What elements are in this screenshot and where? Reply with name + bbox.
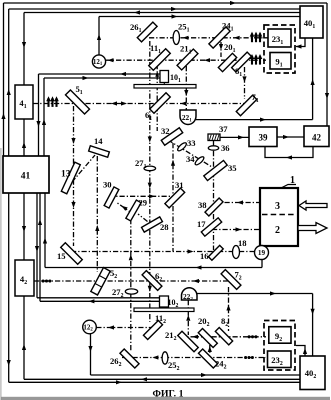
wire loop L2 bottom: left riser to unit 40-2: [8, 193, 10, 382]
unit 4-2: [15, 260, 34, 296]
mirror 26-2: [120, 349, 139, 368]
wire: 39 to 42: [277, 136, 304, 138]
svg-text:18: 18: [238, 238, 247, 248]
svg-text:42: 42: [312, 133, 322, 143]
svg-text:36: 36: [221, 143, 230, 153]
laser 9-2: [269, 327, 291, 344]
beam: mirror 29 to mirror 30 diagonal: [116, 202, 133, 214]
beam: laser 9-1 to mirrors 8-1 20-1 21-1 11-1 to node 12-1: [106, 59, 267, 61]
carriage 10-2: [163, 307, 165, 308]
beam: mirror 32 to 33 34 mirror 35 diagonal: [168, 140, 212, 167]
mirror 5-2 striped: [91, 268, 110, 295]
wire: detector 22-1 to 40-1: [196, 119, 313, 121]
mirror 16: [208, 245, 223, 260]
lens 33: [176, 141, 187, 152]
mirror 31: [165, 188, 185, 208]
wire L3 bottom: 40-2 to 4-2: [24, 378, 300, 380]
beam: mirror 28 to mirror 29 diagonal: [138, 214, 148, 222]
beam: mirror 24-1 down to mirror 20-1: [220, 42, 222, 57]
outlet open arrow: [298, 223, 327, 234]
svg-text:17: 17: [197, 219, 206, 229]
mirror 20-2: [198, 328, 217, 347]
wire: 37 to 39: [220, 136, 249, 138]
wire loop L2 top: left riser to unit 40-1: [9, 8, 300, 10]
beam: 37 lens 36 mirror 35 38 17 16 vertical: [213, 141, 215, 251]
beam: mirror 13 to mirror 14 diagonal: [72, 155, 95, 182]
beam: mirror 11-1 down through stage to mirror 6-1: [156, 64, 158, 131]
beam: 4-1 to mirrors 5-1 6-1 7-1: [33, 103, 250, 105]
mirror 17: [201, 218, 221, 236]
dots before 9-2: [248, 335, 251, 338]
svg-text:ФИГ. 1: ФИГ. 1: [153, 389, 184, 400]
wire 41 to 4-2: [23, 193, 25, 260]
mirror 8-1: [232, 52, 252, 72]
lens 27-1: [144, 166, 156, 171]
mirror 7-1: [236, 95, 257, 116]
mirror 6-1: [150, 93, 171, 114]
lens 25-2: [162, 352, 168, 364]
mirror 15: [61, 243, 83, 265]
reticle 37: [208, 134, 220, 141]
wire L4 bottom: 12-2 to 40-2: [90, 334, 92, 375]
mirror 24-1: [209, 27, 230, 48]
svg-text:34: 34: [186, 154, 195, 164]
svg-text:29: 29: [139, 198, 148, 208]
mirror 30: [104, 187, 119, 208]
node 12-1: [92, 55, 105, 68]
mirror 11-2: [143, 320, 162, 339]
wire W3: node 19 to 41: [45, 267, 262, 269]
beam: mirror 21-2 up to detector 22-2: [187, 300, 189, 335]
mirror 14: [89, 146, 110, 157]
laser 23-1: [268, 29, 291, 47]
beam: mirror 24-2 up to mirror 20-2: [209, 345, 211, 353]
mirror 5-1: [65, 90, 89, 114]
mirror 28: [142, 217, 163, 232]
beam: mirror 11-2 to node 12-2: [96, 327, 158, 329]
svg-text:39: 39: [259, 133, 269, 143]
mirror 13: [61, 162, 80, 194]
wire: 40-2 to pump unit: [296, 346, 305, 357]
beam: mirror 29 down to lens 27-2 mirror 26-2: [130, 219, 132, 352]
svg-text:38: 38: [198, 200, 207, 210]
beam: mirror 32 down to mirror 31: [172, 143, 174, 252]
wire W1: stage 10-1 to 41: [39, 73, 161, 75]
beam: 4-2 to mirrors 5-2 6-2 7-2: [34, 280, 237, 282]
beam: mirror 17 to box 2: [212, 229, 260, 231]
lens 18: [233, 246, 240, 259]
wire: node 19 down to wire W3: [261, 259, 263, 268]
mirror 35: [204, 160, 227, 180]
mirror 32: [161, 128, 182, 146]
svg-text:3: 3: [275, 201, 280, 212]
wire L3 top: 40-1 to 4-1: [24, 12, 300, 14]
mirror 8-2: [215, 328, 232, 345]
lens 34: [194, 155, 205, 166]
beam: box 3 to mirror 38: [214, 202, 260, 204]
wire W5: stage 10-2 to 41: [39, 193, 41, 301]
unit 42: [304, 126, 329, 147]
wire L4 top: 12-1 to 40-1: [99, 16, 300, 18]
inlet open arrow: [299, 201, 327, 210]
translation stage rail 10-2: [134, 308, 194, 312]
svg-text:13: 13: [61, 170, 71, 180]
svg-text:28: 28: [160, 222, 169, 232]
node 12-2: [83, 320, 97, 334]
laser 23-2: [268, 351, 292, 368]
wire W4: 41 to stage 10-2: [36, 193, 38, 298]
beam: mirror 30 to mirror 31: [109, 195, 173, 197]
lens 27-2: [125, 289, 137, 294]
measurement cell 1 with chambers 3 and 2: [260, 188, 298, 246]
beam: mirror 26-1 down through lens 27-1 mirror 28 to 6-2 11-2: [149, 41, 151, 322]
pump unit dashed box top: [264, 25, 295, 73]
wire W2: 41 to stage 10-1: [44, 77, 160, 79]
wire: 40-1 to pump unit: [296, 38, 305, 47]
beam: mirror 15 to 16 lens 18 node 19: [71, 251, 255, 253]
svg-text:15: 15: [57, 251, 66, 261]
mirror 24-2: [198, 349, 217, 368]
beam: mirror 8-1 down to mirror 7-1: [244, 67, 246, 99]
beam: mirror 5-1 down to 13 and 15: [73, 106, 75, 246]
pump unit dashed box bottom: [264, 321, 295, 371]
svg-text:2: 2: [275, 225, 280, 236]
lens 25-1: [173, 31, 179, 45]
attenuator before 23-1: [251, 33, 253, 42]
mirror 6-2: [142, 271, 162, 291]
svg-text:30: 30: [103, 180, 112, 190]
svg-text:37: 37: [219, 124, 228, 134]
mirror 21-2: [178, 331, 199, 352]
mirror 21-1: [177, 49, 198, 70]
mirror 11-1: [149, 49, 171, 71]
svg-text:41: 41: [21, 172, 31, 182]
wire loop L1: unit 41 - top - right side - unit 42: [4, 2, 328, 4]
laser 9-1: [270, 53, 291, 70]
beam: laser 23-1 to mirror 24-1 to mirror 26-1: [149, 37, 268, 39]
mirror 38: [205, 198, 223, 216]
lens 36: [208, 146, 218, 150]
translation stage rail 10-1: [134, 85, 196, 89]
unit 40-1: [300, 6, 323, 38]
left scan shadow band: [0, 148, 2, 400]
svg-text:31: 31: [175, 180, 184, 190]
unit 39: [249, 127, 277, 147]
svg-text:14: 14: [94, 136, 103, 146]
beam: mirror 14 down to mirror 5-2: [96, 156, 98, 272]
detector 22-2: [182, 288, 198, 300]
svg-text:32: 32: [161, 126, 170, 136]
mirror 7-2: [221, 270, 241, 290]
attenuator before 9-1: [251, 56, 253, 65]
beam: laser 9-2 to mirrors 8-2 20-2 21-2: [180, 336, 266, 338]
mirror 26-1: [137, 22, 157, 42]
mirror 29: [126, 200, 141, 221]
beam: mirror 8-2 up to mirror 7-2: [228, 287, 230, 331]
detector 22-1: [180, 110, 196, 125]
dots after 4-2: [42, 279, 45, 282]
wire 41 to 4-1: [23, 119, 25, 156]
wire: detector 22-2 to 40-2: [197, 293, 313, 295]
svg-text:19: 19: [258, 249, 266, 257]
unit 4-1: [15, 85, 33, 119]
attenuator after 4-1: [47, 98, 49, 107]
mirror 20-1: [218, 53, 236, 71]
svg-text:35: 35: [228, 163, 237, 173]
svg-text:16: 16: [200, 251, 209, 261]
svg-text:33: 33: [187, 138, 196, 148]
carriage 10-1: [163, 83, 165, 85]
dots before 23-2: [244, 356, 247, 359]
wire: 42 feedback to 39: [265, 147, 313, 158]
beam: mirror 21-1 down to detector 22-1: [185, 66, 187, 110]
unit 41: [3, 156, 49, 193]
beam: laser 23-2 to mirror 24-2 lens 25-2 mirror 26-2: [122, 357, 266, 359]
unit 40-2: [300, 356, 325, 390]
node 19: [255, 246, 269, 260]
bottom scan shadow band: [1, 397, 330, 400]
